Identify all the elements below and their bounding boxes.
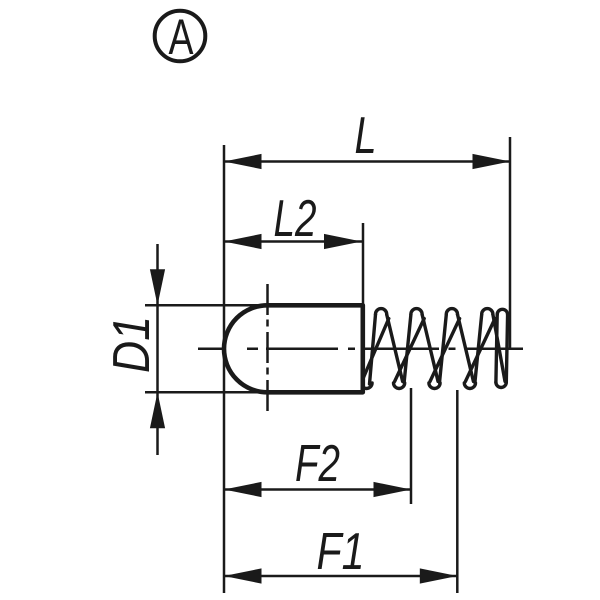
arrow L2 left — [224, 234, 262, 249]
arrow F2 right — [374, 482, 412, 497]
spring back diagonal B3 — [430, 319, 460, 382]
extension line D1 bottom — [145, 391, 267, 394]
plunger body — [224, 305, 363, 392]
arrow F1 right — [420, 568, 458, 583]
dimension line F1 — [224, 575, 457, 578]
svg-text:F1: F1 — [317, 523, 365, 581]
spring top loop 1 — [376, 309, 387, 315]
spring leaning line C1 — [387, 314, 403, 381]
extension line right for L2 (body edge x=363) — [362, 223, 365, 304]
spring start partial bottom loop — [361, 383, 372, 389]
arrow L left — [224, 154, 262, 169]
spring bottom loop 1 — [394, 383, 405, 389]
spring end coil top arc — [497, 309, 507, 314]
spring leaning line C2 — [422, 314, 438, 381]
arrow L2 right — [324, 234, 362, 249]
dimension line L — [224, 160, 510, 163]
extension line right for L (spring end x=510) — [509, 137, 512, 349]
spring top loop 4 — [482, 309, 493, 315]
svg-text:A: A — [169, 9, 194, 65]
spring (coil) — [361, 309, 508, 389]
dimension line L2 — [224, 240, 363, 243]
svg-text:L: L — [355, 107, 377, 165]
arrow D1 lower (pointing up) — [150, 392, 165, 428]
spring top loop 3 — [446, 309, 457, 315]
arrow F1 left — [224, 568, 262, 583]
spring bottom loop 3 — [464, 383, 475, 389]
arrow F2 left — [224, 482, 262, 497]
centerline vertical (dome tangent) — [266, 284, 269, 412]
dimension line D1 — [156, 244, 159, 455]
svg-text:F2: F2 — [295, 435, 340, 493]
svg-text:D1: D1 — [103, 316, 161, 373]
spring back diagonal B1 — [362, 319, 389, 382]
spring bottom loop 2 — [429, 383, 440, 389]
svg-text:L2: L2 — [274, 190, 317, 248]
spring end coil left side — [496, 315, 497, 383]
extension line left (common, at plunger tip x=224) — [223, 145, 226, 593]
spring steep line A3 — [440, 314, 447, 382]
extension line right for F2 (x=411) — [410, 388, 413, 504]
spring end coil bottom arc — [496, 382, 506, 387]
view label circle A — [155, 11, 206, 62]
arrow D1 upper (pointing down) — [150, 269, 165, 305]
arrow L right — [473, 154, 511, 169]
spring leaning line C3 — [458, 314, 474, 381]
spring back diagonal B4 — [465, 319, 495, 382]
spring steep line A2 — [404, 314, 411, 382]
spring end coil right side — [506, 315, 507, 383]
extension line right for F1 (x=457.3) — [456, 390, 459, 593]
centerline horizontal — [198, 348, 523, 351]
spring back diagonal B2 — [395, 319, 425, 382]
spring steep line A4 — [475, 314, 482, 382]
extension line D1 top — [145, 304, 267, 307]
spring leaning line C4 — [493, 314, 505, 381]
dimension line F2 — [224, 488, 411, 491]
spring top loop 2 — [411, 309, 422, 315]
spring steep line A1 — [370, 314, 376, 384]
